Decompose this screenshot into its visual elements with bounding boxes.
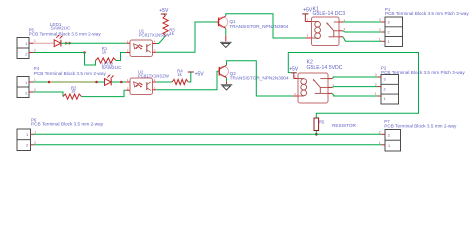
wire Q2 collector to K2 coil-: [227, 61, 299, 96]
relay K1 G5LE-14 DC3: [307, 6, 346, 45]
svg-text:1: 1: [384, 97, 386, 101]
svg-text:PCB Terminal Block 3.5 mm Pitc: PCB Terminal Block 3.5 mm Pitch 3-way: [385, 11, 469, 16]
wire P5.1 to LED1 anode: [34, 42, 55, 44]
svg-text:2: 2: [379, 28, 381, 32]
node junction on P5.2 net: [83, 51, 86, 54]
svg-text:+5V: +5V: [159, 8, 169, 14]
wire P4.1 to LED2: [34, 81, 105, 83]
svg-text:PCB Terminal Block 3.5 mm 2-wa: PCB Terminal Block 3.5 mm 2-way: [34, 71, 107, 76]
svg-text:1: 1: [388, 40, 390, 44]
svg-text:2: 2: [26, 144, 28, 148]
resistor R4 1k (pull-up): [172, 69, 188, 85]
svg-text:1: 1: [388, 144, 390, 148]
svg-text:TRANSISTOR_NPN2N3904: TRANSISTOR_NPN2N3904: [229, 24, 288, 29]
LED LED1 SAW2UC: [50, 22, 72, 47]
resistor R5 RESISTOR: [314, 118, 356, 131]
svg-text:2: 2: [34, 49, 36, 53]
LED LED2 SAW2UC: [105, 75, 114, 86]
svg-text:2: 2: [388, 31, 390, 35]
power +5V for R4: [188, 72, 205, 82]
wire Q1 emitter to ground: [225, 28, 227, 41]
wire +5V loop to R5: [288, 53, 418, 119]
svg-text:+5V: +5V: [289, 67, 299, 73]
ground for Q2: [221, 85, 233, 90]
svg-text:RESISTOR: RESISTOR: [332, 123, 356, 128]
svg-text:SAW2UC: SAW2UC: [51, 26, 71, 31]
resistor R2 1k: [63, 85, 82, 99]
wire U2 pin3 to Q2 base: [156, 71, 219, 90]
svg-text:3: 3: [379, 18, 381, 22]
svg-text:1: 1: [25, 81, 27, 85]
wire K2 COM to P2.2: [332, 86, 378, 89]
svg-text:2: 2: [34, 88, 36, 92]
svg-text:2: 2: [25, 92, 27, 96]
op-amp U2 optocoupler PC817X1NSZW: [126, 69, 170, 94]
svg-text:3: 3: [388, 21, 390, 25]
node junction dot B: [95, 81, 98, 84]
svg-text:2: 2: [34, 141, 36, 145]
svg-text:PC817X1NSZW: PC817X1NSZW: [139, 32, 171, 37]
wire K1 COM to P1.2: [343, 31, 382, 32]
wire K2 NO to P2.3: [332, 77, 378, 79]
power +5V for K1 coil: [302, 7, 313, 21]
wire R2 to U2 pin2: [82, 90, 127, 96]
wire +5V to K2 coil+: [294, 78, 298, 80]
svg-text:R5: R5: [319, 119, 325, 124]
wire bus P6.2 to P7.1: [34, 144, 382, 146]
svg-text:3: 3: [375, 73, 377, 77]
wire U1 pin3 to Q1 base: [156, 22, 218, 52]
svg-text:1: 1: [25, 42, 27, 46]
terminal block P5 (PCB Terminal Block 3.5 mm 2-way): [17, 27, 101, 58]
svg-text:1: 1: [34, 78, 36, 82]
svg-text:PCB Terminal Block 3.5 mm 2-wa: PCB Terminal Block 3.5 mm 2-way: [384, 123, 457, 128]
svg-text:1: 1: [379, 38, 381, 42]
svg-text:G5LE-14 5VDC: G5LE-14 5VDC: [307, 65, 343, 71]
transistor Q1 TRANSISTOR_NPN2N3904: [218, 16, 289, 29]
svg-text:+5V: +5V: [195, 72, 205, 78]
node junction at U2 pin1: [120, 81, 123, 84]
svg-text:2: 2: [379, 131, 381, 135]
svg-text:2: 2: [375, 83, 377, 87]
wire +5V to K1 coil+: [305, 21, 311, 23]
power +5V for R3: [159, 8, 169, 15]
svg-text:2: 2: [384, 87, 386, 91]
svg-text:1: 1: [379, 141, 381, 145]
wire K1 NO to P1.3: [343, 21, 382, 23]
node junction R5-bus: [315, 133, 318, 136]
relay K2 G5LE-14 5VDC: [294, 60, 343, 103]
svg-text:SAW2UC: SAW2UC: [102, 65, 122, 70]
svg-text:PCB Terminal Block 3.5 mm Pitc: PCB Terminal Block 3.5 mm Pitch 3-way: [381, 70, 465, 75]
wire K2 NC to P2.1: [332, 93, 378, 96]
svg-text:+5V: +5V: [303, 7, 313, 13]
resistor R3 1k (pull-up): [163, 15, 175, 36]
terminal block P2 (PCB Terminal Block 3.5 mm Pitch 3-way): [375, 66, 465, 104]
svg-text:G5LE-14 DC3: G5LE-14 DC3: [313, 11, 346, 17]
svg-text:1: 1: [375, 92, 377, 96]
label for LED2 (row 2): [102, 61, 122, 70]
wire K1 NC to P1.1: [343, 37, 382, 42]
wire Q2 emitter to ground: [226, 78, 228, 84]
svg-text:PCB Terminal Block 3.5 mm 2-wa: PCB Terminal Block 3.5 mm 2-way: [29, 31, 102, 36]
wire R1 to U1 pin2: [116, 53, 126, 61]
wire LED2 cathode to U2 pin1: [111, 81, 126, 83]
terminal block P6 (PCB Terminal Block 3.5 mm 2-way): [17, 117, 104, 150]
wire bus P6.1 to P7.2: [34, 133, 382, 135]
terminal block P1 (PCB Terminal Block 3.5 mm Pitch 3-way): [379, 7, 469, 47]
node junction dot A: [48, 81, 51, 84]
wire LED1 cathode to U1 pin1: [61, 42, 126, 44]
svg-text:2: 2: [388, 134, 390, 138]
resistor R1 1k: [96, 46, 117, 63]
svg-text:3: 3: [384, 78, 386, 82]
svg-text:1: 1: [34, 39, 36, 43]
power +5V for K2 coil and R5 loop: [289, 67, 299, 79]
wire U2 pin4 to R4: [156, 81, 172, 83]
svg-text:2: 2: [25, 53, 27, 57]
ground for Q1: [220, 42, 232, 47]
wire Q1 collector to K1 coil-: [226, 14, 312, 38]
svg-text:TRANSISTOR_NPN2N3904: TRANSISTOR_NPN2N3904: [230, 76, 289, 81]
wire P4.2 to R2: [34, 92, 64, 97]
wire P5.2 to R1: [34, 53, 96, 66]
wire U1 pin4 to R3: [156, 36, 165, 44]
svg-text:PCB Terminal Block 3.5 mm 2-wa: PCB Terminal Block 3.5 mm 2-way: [31, 121, 104, 126]
svg-text:1: 1: [26, 133, 28, 137]
svg-text:1: 1: [34, 130, 36, 134]
transistor Q2 TRANSISTOR_NPN2N3904: [219, 65, 290, 80]
terminal block P4 (PCB Terminal Block 3.5 mm 2-way): [17, 66, 107, 97]
op-amp U1 optocoupler PC817X1NSZW: [126, 28, 170, 56]
terminal block P7 (PCB Terminal Block 3.5 mm 2-way): [379, 119, 457, 151]
wire R5 to bus: [315, 131, 317, 135]
